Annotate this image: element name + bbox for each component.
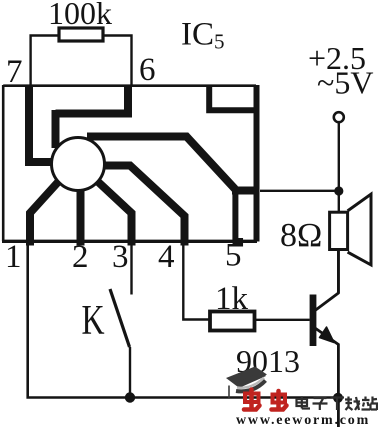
svg-text:1: 1 bbox=[5, 239, 22, 275]
IC internal trace from chip blob to pin 2 bbox=[77, 188, 85, 246]
svg-text:K: K bbox=[82, 298, 105, 344]
svg-text:IC5: IC5 bbox=[181, 17, 225, 54]
junction dot at emitter and bottom rail bbox=[333, 393, 343, 403]
svg-text:www.eeworm.com: www.eeworm.com bbox=[236, 413, 370, 427]
svg-text:100k: 100k bbox=[48, 0, 112, 31]
wire: pin 4 down to resistor R2 bbox=[183, 245, 210, 320]
resistor R2 1k body bbox=[210, 312, 255, 331]
transistor Q1 emitter line with arrow bbox=[315, 328, 338, 427]
wire: R2 right lead to transistor base bbox=[255, 319, 310, 321]
transistor Q1 9013 base bar bbox=[310, 295, 317, 347]
junction dot at supply node bbox=[334, 186, 343, 195]
svg-text:1k: 1k bbox=[215, 281, 249, 317]
resistor R1 100k body bbox=[59, 28, 103, 41]
wire: R1 right lead to IC pin 6 bbox=[103, 36, 132, 86]
IC internal trace from pin 7 to chip blob bbox=[29, 85, 54, 162]
switch K blade bbox=[110, 289, 130, 347]
wire: pin 1 down and bottom rail to emitter node bbox=[28, 245, 336, 398]
svg-text:8Ω: 8Ω bbox=[280, 217, 322, 254]
speaker LS1 driver rectangle bbox=[330, 212, 348, 249]
chip blob circle inside IC bbox=[52, 138, 105, 191]
IC U1 box outline bbox=[2, 85, 257, 242]
wire: switch K to bottom rail bbox=[129, 347, 131, 396]
junction dot at switch and bottom rail bbox=[125, 392, 135, 402]
wire: IC right edge to supply node bbox=[260, 190, 336, 192]
IC internal trace from chip blob to pin 4 bbox=[102, 166, 185, 246]
svg-text:6: 6 bbox=[139, 52, 156, 88]
wire: pin 3 down to switch K bbox=[130, 245, 132, 295]
IC internal pad at top right corner bbox=[209, 86, 254, 110]
svg-text:2: 2 bbox=[72, 239, 89, 275]
speaker LS1 cone bbox=[348, 194, 371, 265]
IC internal pad bar above pin 5 bbox=[232, 190, 238, 241]
IC internal trace from chip blob to pin 1 bbox=[30, 181, 59, 246]
IC internal trace from chip blob to pin 5 and right edge bbox=[87, 137, 257, 191]
svg-text:4: 4 bbox=[158, 239, 175, 275]
IC internal trace from pin 6 to chip blob bbox=[56, 85, 129, 148]
svg-text:~5V: ~5V bbox=[317, 65, 373, 101]
svg-text:3: 3 bbox=[112, 239, 129, 275]
wire: power terminal down to supply node bbox=[338, 123, 340, 189]
watermark text dianzi xiazaizhan (grey) bbox=[297, 396, 378, 410]
wire: speaker bottom to collector bbox=[337, 250, 339, 294]
watermark text chong chong (red) bbox=[244, 390, 287, 410]
IC internal trace from chip blob to pin 3 bbox=[95, 179, 132, 246]
wire: R1 left lead to IC pin 7 bbox=[31, 36, 59, 86]
wire: supply node down to speaker bbox=[338, 191, 340, 212]
watermark graduation cap logo bbox=[226, 367, 267, 399]
power terminal circle bbox=[334, 112, 344, 122]
transistor Q1 emitter arrowhead bbox=[320, 327, 335, 343]
transistor Q1 collector line bbox=[315, 250, 338, 311]
IC pin 5 stub bbox=[233, 238, 244, 247]
svg-text:7: 7 bbox=[6, 54, 23, 90]
svg-text:5: 5 bbox=[225, 238, 242, 274]
